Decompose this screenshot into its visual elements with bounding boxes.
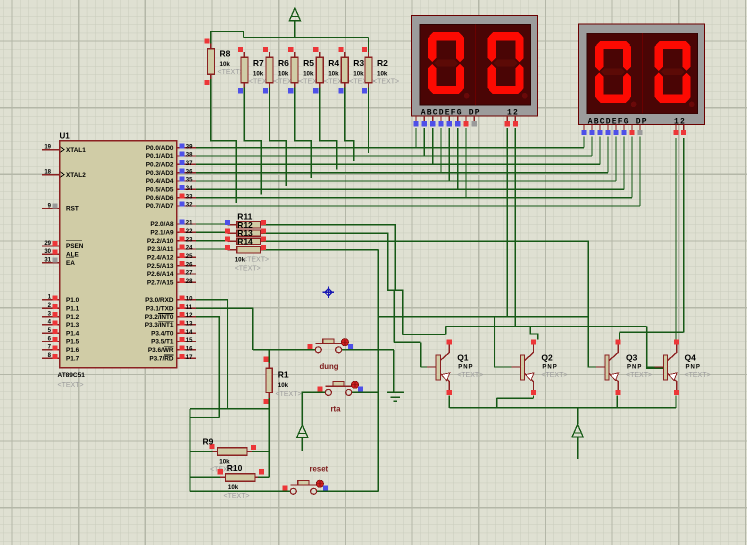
resistor R14 body bbox=[225, 245, 266, 253]
svg-text:<TEXT>: <TEXT> bbox=[685, 372, 711, 379]
svg-text:PNP: PNP bbox=[627, 364, 642, 370]
svg-text:P3.6/WR: P3.6/WR bbox=[148, 347, 174, 354]
pin 4 P1.3 stub bbox=[42, 320, 60, 326]
wire display1 segment B riser bbox=[423, 128, 425, 156]
svg-text:15: 15 bbox=[186, 338, 193, 344]
wire bottom rail right bbox=[317, 490, 379, 492]
wire P0 row pin 34 bbox=[196, 188, 624, 190]
wire R3 bottom to row 37 bbox=[345, 88, 354, 162]
wire display1 segment D riser bbox=[440, 128, 442, 173]
svg-text:P1.3: P1.3 bbox=[66, 322, 80, 329]
resistor R1 bbox=[263, 357, 301, 404]
pin 28 P2.7 stub bbox=[177, 278, 196, 285]
pin 33 P0.6 stub bbox=[177, 193, 196, 200]
resistor R6 bbox=[263, 47, 300, 94]
wire top rail bbox=[244, 37, 369, 39]
origin marker crosshair bbox=[323, 287, 334, 298]
svg-text:XTAL1: XTAL1 bbox=[66, 147, 86, 154]
svg-text:P3.7/RD: P3.7/RD bbox=[149, 355, 174, 362]
wire display2 segment C riser bbox=[599, 137, 601, 165]
svg-text:22: 22 bbox=[186, 229, 193, 235]
svg-text:Q2: Q2 bbox=[541, 353, 553, 363]
wire display2 segment A riser bbox=[583, 137, 585, 148]
wire R1 bottom bbox=[268, 398, 270, 409]
pin 34 P0.5 stub bbox=[177, 185, 196, 192]
svg-text:<TEXT>: <TEXT> bbox=[235, 266, 261, 273]
wire display1 segment A riser bbox=[415, 128, 417, 148]
chip overlines PSEN EA bbox=[66, 241, 82, 258]
svg-text:P1.2: P1.2 bbox=[66, 314, 80, 321]
wire emitter rail to power bbox=[577, 408, 579, 424]
pin 9 RST stub bbox=[42, 203, 60, 209]
svg-text:34: 34 bbox=[186, 186, 193, 192]
svg-text:reset: reset bbox=[310, 465, 329, 474]
svg-text:Q3: Q3 bbox=[626, 353, 638, 363]
transistor Q1 PNP bbox=[421, 339, 452, 395]
wire dung right bbox=[342, 349, 394, 351]
wire R11 out down bbox=[263, 225, 403, 335]
wire display1 pin2 down bbox=[514, 128, 516, 327]
pin 15 P3.5 stub bbox=[177, 337, 196, 344]
wire bottom rail left bbox=[190, 490, 290, 492]
pin 35 P0.4 stub bbox=[177, 177, 196, 184]
wire display1 segment C riser bbox=[432, 128, 434, 165]
svg-text:10k: 10k bbox=[278, 382, 289, 389]
svg-text:14: 14 bbox=[186, 330, 193, 336]
wire R14 long vertical to bottom rail bbox=[377, 250, 379, 492]
svg-text:25: 25 bbox=[186, 254, 193, 260]
button rta bbox=[318, 381, 363, 395]
svg-text:R3: R3 bbox=[353, 58, 364, 68]
7-segment display display1 bbox=[412, 16, 538, 117]
wire R1 to R10 vertical bbox=[268, 409, 270, 478]
wire Q2 base bbox=[495, 317, 521, 367]
button reset bbox=[283, 480, 328, 494]
svg-text:P3.0/RXD: P3.0/RXD bbox=[145, 297, 174, 304]
wire R2 top bbox=[368, 38, 370, 53]
wire display2 segment F riser bbox=[623, 137, 625, 190]
wire R12 out down bbox=[263, 233, 394, 342]
wire display1 segment E riser bbox=[448, 128, 450, 181]
svg-text:AT89C51: AT89C51 bbox=[58, 372, 86, 379]
pin 26 P2.5 stub bbox=[177, 261, 196, 268]
wire left vertical bbox=[189, 409, 191, 492]
wire R12 jog to Q1 base bbox=[394, 341, 420, 343]
svg-text:RST: RST bbox=[66, 206, 79, 213]
svg-text:16: 16 bbox=[186, 346, 193, 352]
resistor R7 bbox=[238, 47, 275, 94]
svg-text:P2.6/A14: P2.6/A14 bbox=[147, 271, 174, 278]
svg-text:PNP: PNP bbox=[686, 364, 701, 370]
wire collector bus H bbox=[446, 326, 647, 328]
svg-text:P1.4: P1.4 bbox=[66, 330, 80, 337]
svg-text:R14: R14 bbox=[237, 236, 253, 246]
svg-text:27: 27 bbox=[186, 271, 193, 277]
svg-text:ABCDEFG DP: ABCDEFG DP bbox=[421, 109, 481, 118]
wire P3.0 down bbox=[196, 300, 228, 409]
pin 16 P3.6 stub bbox=[177, 346, 196, 353]
chip pin names right column bbox=[145, 145, 174, 363]
pin 1 P1.0 stub bbox=[42, 295, 60, 301]
wire R8 top elbow bbox=[211, 32, 244, 44]
svg-text:17: 17 bbox=[186, 355, 193, 361]
wire P0 row pin 32 bbox=[196, 205, 640, 207]
pin 10 P3.0 stub bbox=[177, 296, 196, 303]
wire display2 pin1 to Q4 collector bbox=[675, 138, 677, 340]
pin 19 XTAL1 stub bbox=[42, 144, 60, 150]
svg-text:24: 24 bbox=[186, 246, 193, 252]
power symbol (top +V arrow) bbox=[289, 8, 300, 25]
svg-text:<TEXT>: <TEXT> bbox=[626, 372, 652, 379]
svg-text:R6: R6 bbox=[278, 58, 289, 68]
svg-text:P3.3/INT1: P3.3/INT1 bbox=[145, 322, 174, 329]
wire display1 segment F riser bbox=[457, 128, 459, 190]
wire jog H2 bbox=[190, 417, 219, 419]
wire display2 segment B riser bbox=[591, 137, 593, 157]
svg-text:10k: 10k bbox=[278, 71, 289, 78]
pin 5 P1.4 stub bbox=[42, 328, 60, 334]
wire P3.1 down to dung bbox=[196, 308, 253, 350]
svg-text:P3.2/INT0: P3.2/INT0 bbox=[145, 314, 174, 321]
wire P2.1 to R12 bbox=[196, 231, 227, 233]
svg-text:P0.5/AD5: P0.5/AD5 bbox=[146, 187, 174, 194]
wire R1 top junction bbox=[268, 350, 270, 363]
wire P2.3 to R14 bbox=[196, 248, 227, 250]
svg-text:38: 38 bbox=[186, 153, 193, 159]
pin 37 P0.2 stub bbox=[177, 160, 196, 167]
wire display2 segment D riser bbox=[607, 137, 609, 173]
wire Q1 emitter down bbox=[448, 396, 450, 408]
wire R11 jog H bbox=[403, 334, 446, 336]
svg-text:37: 37 bbox=[186, 161, 193, 167]
svg-text:P0.1/AD1: P0.1/AD1 bbox=[146, 153, 174, 160]
display display2 pins bbox=[581, 125, 686, 135]
wire R7 bottom to row 33 bbox=[244, 88, 261, 195]
svg-text:23: 23 bbox=[186, 237, 193, 243]
svg-text:35: 35 bbox=[186, 178, 193, 184]
button dung bbox=[308, 339, 353, 353]
wire R14 out bbox=[263, 249, 378, 251]
svg-text:P2.7/A15: P2.7/A15 bbox=[147, 280, 174, 287]
pin 3 P1.2 stub bbox=[42, 311, 60, 317]
svg-text:P2.2/A10: P2.2/A10 bbox=[147, 238, 174, 245]
svg-text:EA: EA bbox=[66, 260, 75, 267]
wire power to resistor rail bbox=[294, 25, 296, 38]
svg-text:13: 13 bbox=[186, 321, 193, 327]
svg-text:10k: 10k bbox=[228, 484, 239, 491]
svg-text:10k: 10k bbox=[353, 71, 364, 78]
svg-text:P1.5: P1.5 bbox=[66, 339, 80, 346]
pin 13 P3.3 stub bbox=[177, 321, 196, 328]
svg-text:PSEN: PSEN bbox=[66, 243, 84, 250]
svg-text:10: 10 bbox=[186, 297, 193, 303]
resistor R11 body bbox=[225, 220, 266, 228]
wire Q2 emitter jog down bbox=[496, 398, 498, 408]
wire display2 pin2 down bbox=[683, 138, 685, 333]
svg-text:R2: R2 bbox=[377, 58, 388, 68]
svg-text:10k: 10k bbox=[328, 71, 339, 78]
wire R9 right bbox=[252, 451, 269, 453]
wire R8 bottom to row 32 bbox=[211, 79, 236, 203]
pin 7 P1.6 stub bbox=[42, 345, 60, 351]
svg-text:P0.0/AD0: P0.0/AD0 bbox=[146, 145, 174, 152]
svg-text:18: 18 bbox=[44, 169, 51, 175]
resistor R4 bbox=[313, 47, 350, 94]
resistor R8 bbox=[204, 38, 243, 85]
svg-text:P2.5/A13: P2.5/A13 bbox=[147, 263, 174, 270]
wire emitter rail bbox=[449, 407, 676, 409]
wire jog to Q2 collector bbox=[530, 327, 538, 340]
wire P0 row pin 39 bbox=[196, 147, 584, 149]
pin 14 P3.4 stub bbox=[177, 329, 196, 336]
resistor R12 body bbox=[225, 228, 266, 236]
svg-text:11: 11 bbox=[186, 305, 193, 311]
wire to Q4 base bbox=[647, 327, 664, 369]
resistor R10 bbox=[218, 463, 264, 500]
ground symbol bbox=[387, 392, 404, 401]
chip clock chevrons bbox=[61, 147, 65, 177]
svg-text:R10: R10 bbox=[227, 463, 243, 473]
microcontroller U1 AT89C51 body bbox=[60, 141, 177, 368]
svg-text:12: 12 bbox=[186, 313, 193, 319]
svg-text:U1: U1 bbox=[60, 132, 71, 141]
wire R11 to collector bus bbox=[445, 327, 447, 335]
pin 39 P0.0 stub bbox=[177, 143, 196, 150]
wire R13 out to Q3 base bbox=[263, 241, 605, 367]
svg-text:R7: R7 bbox=[253, 58, 264, 68]
wire P3.2 down bbox=[196, 317, 219, 418]
pin 25 P2.4 stub bbox=[177, 253, 196, 260]
transistor Q3 PNP bbox=[588, 339, 620, 395]
pin 18 XTAL2 stub bbox=[42, 169, 60, 175]
svg-text:P3.5/T1: P3.5/T1 bbox=[151, 339, 174, 346]
svg-text:R5: R5 bbox=[303, 58, 314, 68]
wire P2.2 to R13 bbox=[196, 240, 227, 242]
resistor R3 bbox=[338, 47, 375, 94]
svg-text:P0.7/AD7: P0.7/AD7 bbox=[146, 203, 174, 210]
svg-text:P2.1/A9: P2.1/A9 bbox=[150, 230, 174, 237]
wire Q2 emitter down bbox=[533, 396, 535, 399]
wire display2 segment DP riser bbox=[639, 137, 641, 207]
wire dung left bbox=[253, 349, 315, 351]
svg-text:PNP: PNP bbox=[542, 364, 557, 370]
svg-text:P1.1: P1.1 bbox=[66, 305, 80, 312]
pin 11 P3.1 stub bbox=[177, 304, 196, 311]
svg-text:39: 39 bbox=[186, 144, 193, 150]
pin 2 P1.1 stub bbox=[42, 303, 60, 309]
wire rta left to power bbox=[302, 392, 325, 424]
svg-text:21: 21 bbox=[186, 221, 193, 227]
svg-text:P1.0: P1.0 bbox=[66, 297, 80, 304]
pin 12 P3.2 stub bbox=[177, 312, 196, 319]
pin 29 PSEN stub bbox=[42, 241, 60, 247]
7-segment display display2 bbox=[579, 24, 705, 125]
svg-text:P3.1/TXD: P3.1/TXD bbox=[146, 305, 174, 312]
svg-text:PNP: PNP bbox=[458, 364, 473, 370]
svg-text:R9: R9 bbox=[203, 437, 214, 447]
svg-text:<TEXT>: <TEXT> bbox=[541, 372, 567, 379]
power symbol (rta +V arrow) bbox=[297, 425, 308, 451]
pin 30 ALE stub bbox=[42, 249, 60, 255]
svg-text:P0.3/AD3: P0.3/AD3 bbox=[146, 170, 174, 177]
svg-text:P2.3/A11: P2.3/A11 bbox=[147, 246, 174, 253]
svg-text:10k: 10k bbox=[253, 71, 264, 78]
pin 17 P3.7 stub bbox=[177, 354, 196, 361]
pin 23 P2.2 stub bbox=[177, 236, 196, 243]
pin 36 P0.3 stub bbox=[177, 168, 196, 175]
wire P0 row pin 38 bbox=[196, 155, 592, 157]
wire R6 bottom to row 34 bbox=[270, 88, 287, 187]
resistor R9 bbox=[203, 437, 257, 474]
svg-text:R8: R8 bbox=[220, 49, 231, 59]
wire display2 segment E riser bbox=[615, 137, 617, 182]
pin 32 P0.7 stub bbox=[177, 202, 196, 209]
svg-text:28: 28 bbox=[186, 279, 193, 285]
pin 27 P2.6 stub bbox=[177, 270, 196, 277]
wire R10 left bbox=[190, 476, 220, 478]
pin 22 P2.1 stub bbox=[177, 228, 196, 235]
pin 31 EA stub bbox=[42, 257, 60, 263]
wire R10 right bbox=[258, 476, 269, 478]
wire P2.0 to R11 bbox=[196, 223, 227, 225]
chip overlines INT0 INT1 WR RD bbox=[158, 313, 174, 355]
svg-text:10k: 10k bbox=[377, 71, 388, 78]
svg-text:12: 12 bbox=[507, 109, 519, 118]
pin 24 P2.3 stub bbox=[177, 245, 196, 252]
svg-text:Q1: Q1 bbox=[457, 353, 469, 363]
svg-text:10k: 10k bbox=[220, 61, 231, 68]
svg-text:19: 19 bbox=[44, 144, 51, 150]
svg-text:P1.7: P1.7 bbox=[66, 355, 80, 362]
svg-text:10k: 10k bbox=[303, 71, 314, 78]
svg-text:P0.2/AD2: P0.2/AD2 bbox=[146, 162, 174, 169]
svg-text:<TEXT>: <TEXT> bbox=[373, 79, 399, 86]
svg-text:P0.4/AD4: P0.4/AD4 bbox=[146, 178, 174, 185]
resistor R2 bbox=[362, 47, 399, 94]
power symbol (emitter rail +V arrow) bbox=[572, 425, 583, 459]
wire R5 bottom to row 35 bbox=[295, 88, 312, 178]
display display1 pins bbox=[413, 116, 518, 126]
wire rta right bbox=[351, 391, 378, 393]
wire to Q3 collector H bbox=[620, 331, 684, 333]
wire dung to ground bbox=[393, 350, 395, 392]
svg-text:32: 32 bbox=[186, 203, 193, 209]
svg-text:33: 33 bbox=[186, 194, 193, 200]
wire to Q3 collector bbox=[619, 332, 621, 339]
svg-text:31: 31 bbox=[44, 257, 51, 263]
svg-text:29: 29 bbox=[44, 241, 51, 247]
svg-text:R4: R4 bbox=[328, 58, 339, 68]
svg-text:P2.0/A8: P2.0/A8 bbox=[150, 221, 174, 228]
wire R2 bottom to row 38 bbox=[368, 88, 370, 153]
svg-text:<TEXT>: <TEXT> bbox=[243, 257, 269, 264]
transistor Q4 PNP bbox=[647, 339, 680, 395]
svg-text:rta: rta bbox=[331, 405, 342, 414]
wire H1 to R1 bottom bbox=[190, 408, 269, 410]
wire P0 row pin 36 bbox=[196, 172, 608, 174]
pin 8 P1.7 stub bbox=[42, 353, 60, 359]
wire display1 pin1 down bbox=[506, 128, 508, 317]
svg-text:<TEXT>: <TEXT> bbox=[58, 382, 84, 389]
wire P0 row pin 33 bbox=[196, 197, 632, 199]
chip pin names left column bbox=[66, 147, 86, 363]
resistor R5 bbox=[288, 47, 325, 94]
wire R4 bottom to row 36 bbox=[320, 88, 337, 170]
svg-text:ABCDEFG DP: ABCDEFG DP bbox=[588, 117, 648, 126]
svg-text:P3.4/T0: P3.4/T0 bbox=[151, 330, 174, 337]
svg-text:dung: dung bbox=[320, 362, 339, 371]
wire R9 left bbox=[190, 451, 213, 453]
svg-text:<TEXT>: <TEXT> bbox=[224, 493, 250, 500]
svg-text:<TEXT>: <TEXT> bbox=[218, 69, 244, 76]
svg-text:P0.6/AD6: P0.6/AD6 bbox=[146, 195, 174, 202]
pin 6 P1.5 stub bbox=[42, 336, 60, 342]
transistor Q2 PNP bbox=[495, 339, 537, 395]
wire Q3 emitter down bbox=[616, 396, 618, 408]
wire P0 row pin 37 bbox=[196, 163, 600, 165]
wire Q4 emitter down bbox=[675, 396, 677, 408]
svg-text:<TEXT>: <TEXT> bbox=[276, 391, 302, 398]
svg-text:P2.4/A12: P2.4/A12 bbox=[147, 255, 174, 262]
svg-text:P1.6: P1.6 bbox=[66, 347, 80, 354]
wire P0 row pin 35 bbox=[196, 180, 616, 182]
wire display2 segment G riser bbox=[631, 137, 633, 198]
pin 38 P0.1 stub bbox=[177, 152, 196, 159]
wire display1 segment G riser bbox=[465, 128, 467, 198]
svg-text:36: 36 bbox=[186, 169, 193, 175]
pin 21 P2.0 stub bbox=[177, 220, 196, 227]
svg-text:XTAL2: XTAL2 bbox=[66, 172, 86, 179]
wire Q2 emitter jog bbox=[497, 397, 534, 399]
svg-text:Q4: Q4 bbox=[685, 353, 697, 363]
svg-text:26: 26 bbox=[186, 262, 193, 268]
svg-text:30: 30 bbox=[44, 249, 51, 255]
svg-text:R1: R1 bbox=[278, 370, 289, 380]
wire base bus H bbox=[378, 316, 588, 318]
svg-text:<TEXT>: <TEXT> bbox=[457, 372, 483, 379]
resistor R13 body bbox=[225, 237, 266, 245]
wire Q1 base vertical bbox=[420, 342, 422, 367]
